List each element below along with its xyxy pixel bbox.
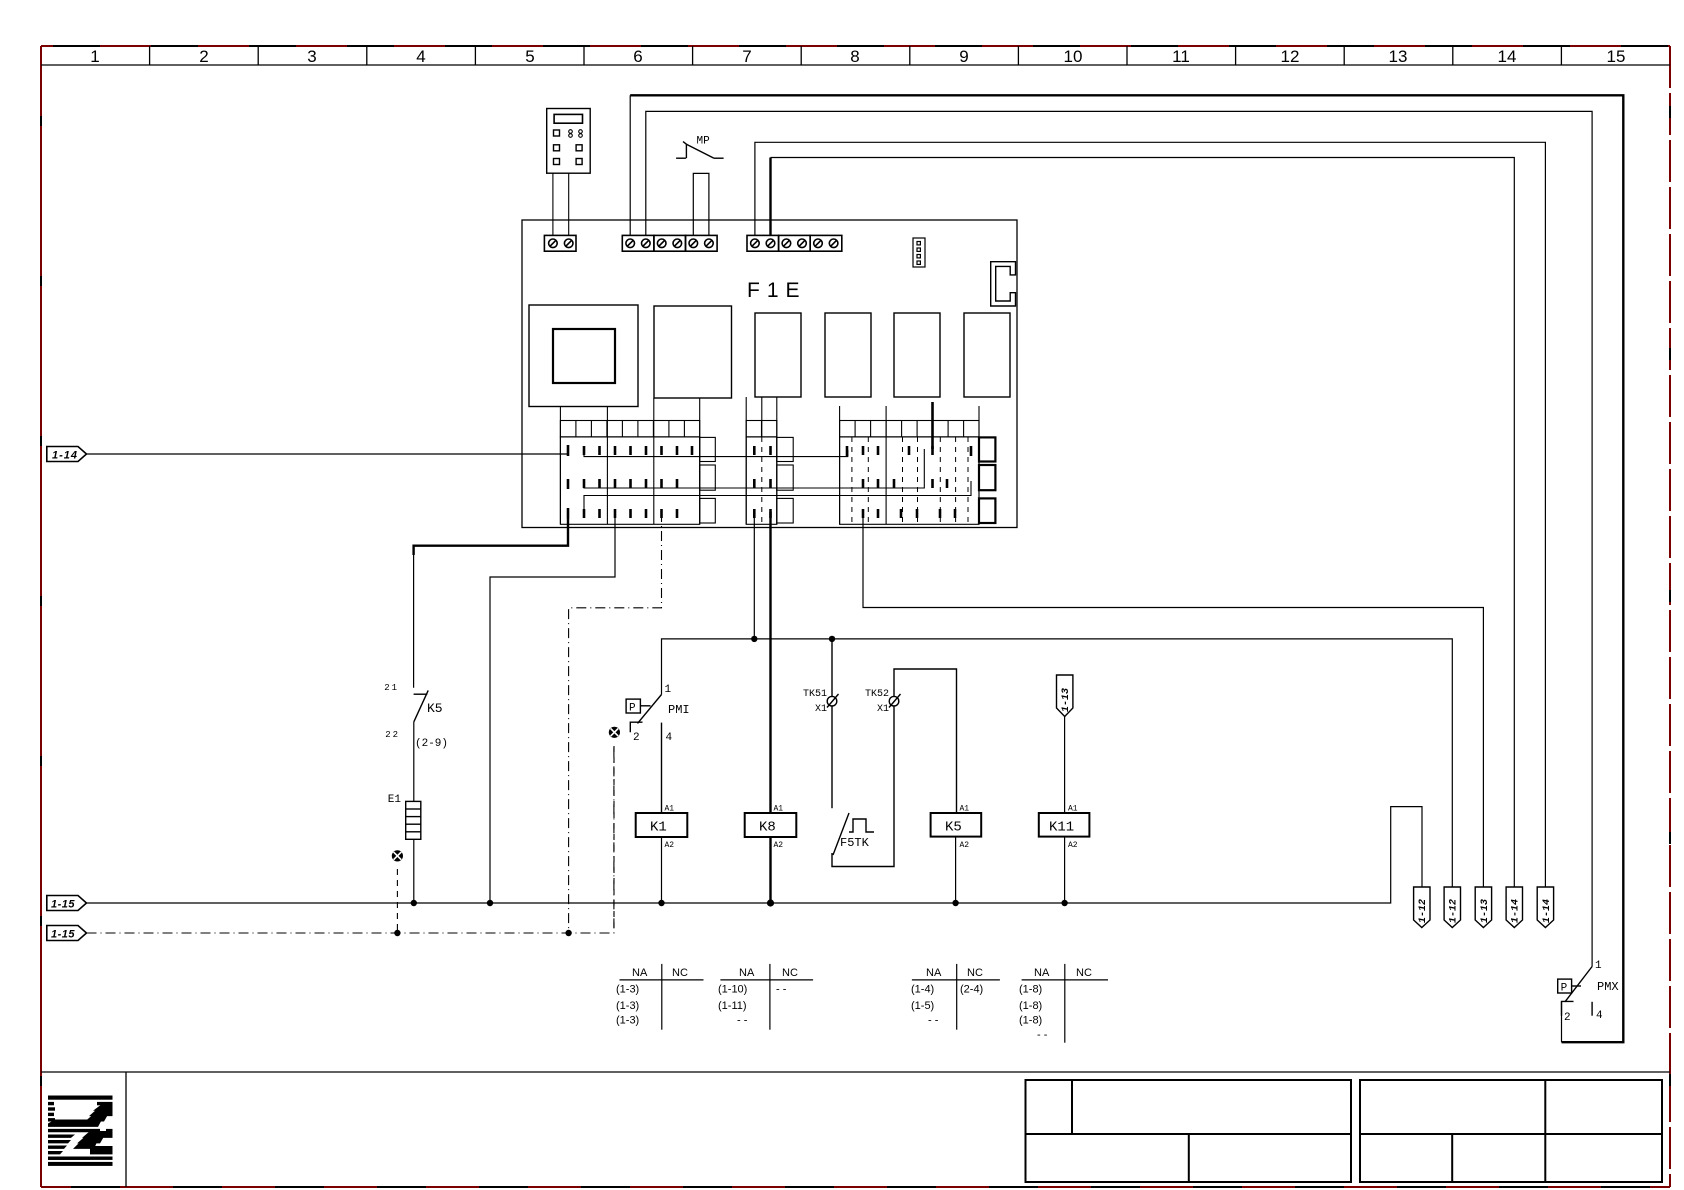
relay block RL1 bbox=[755, 313, 801, 397]
flag label 1-15 (solid rail) bbox=[47, 896, 87, 911]
flag 1-12 first (from rail) bbox=[1414, 887, 1430, 928]
svg-text:K8: K8 bbox=[759, 820, 776, 836]
svg-text:(1-8): (1-8) bbox=[1019, 1015, 1042, 1027]
svg-text:(2-4): (2-4) bbox=[960, 984, 983, 996]
terminal block B1 bbox=[622, 235, 654, 251]
board internal verticals group2 bbox=[746, 397, 777, 524]
contact table K5 bbox=[912, 964, 1000, 1030]
wire K1 to rail bbox=[661, 837, 663, 903]
svg-text:- -: - - bbox=[737, 1015, 748, 1027]
svg-text:2: 2 bbox=[1564, 1012, 1571, 1024]
connector X10 cells row bbox=[560, 421, 699, 437]
title block left table bbox=[1026, 1080, 1352, 1182]
wire flag to K11 bbox=[1064, 717, 1066, 814]
svg-text:NA: NA bbox=[632, 967, 648, 979]
svg-text:A2: A2 bbox=[1068, 841, 1078, 850]
junction dot rail-TK51 bbox=[829, 636, 835, 642]
svg-text:1-13: 1-13 bbox=[1061, 688, 1072, 712]
svg-text:- -: - - bbox=[776, 984, 787, 996]
svg-text:4: 4 bbox=[666, 732, 673, 744]
relay block RL3 bbox=[894, 313, 940, 397]
svg-text:9: 9 bbox=[959, 47, 968, 66]
junction dots on rail bbox=[411, 899, 1068, 906]
wire board to PMI branch bbox=[490, 518, 615, 903]
svg-text:(2-9): (2-9) bbox=[415, 738, 448, 750]
svg-text:4: 4 bbox=[1596, 1010, 1603, 1022]
wire B (net to PMX pin1) bbox=[646, 111, 1592, 966]
svg-text:MP: MP bbox=[697, 136, 711, 148]
svg-text:F5TK: F5TK bbox=[840, 836, 870, 850]
wire K8 to rail (bold) bbox=[769, 837, 771, 903]
flag label 1-14 (left input) bbox=[47, 447, 87, 462]
heater element E1 bbox=[406, 801, 421, 839]
4-pin header J1 bbox=[913, 238, 925, 267]
module block U2 bbox=[654, 306, 732, 398]
svg-text:NC: NC bbox=[1076, 967, 1092, 979]
wire board to flag 1-13 right bbox=[863, 518, 1483, 887]
title block separator line bbox=[41, 1072, 1670, 1187]
svg-text:(1-3): (1-3) bbox=[616, 1000, 639, 1012]
svg-text:12: 12 bbox=[1281, 47, 1300, 66]
svg-text:1: 1 bbox=[1595, 960, 1602, 972]
company logo (striped Z monogram) bbox=[48, 1096, 113, 1166]
IC block U1 (big square with inner square) bbox=[529, 305, 638, 407]
terminal block A (2 screws) bbox=[544, 235, 576, 251]
connector X11 dashed guide bbox=[761, 437, 763, 524]
contact table K11 bbox=[1022, 964, 1108, 1043]
svg-text:(1-8): (1-8) bbox=[1019, 1000, 1042, 1012]
svg-text:A1: A1 bbox=[774, 805, 784, 814]
contact table K1 bbox=[620, 964, 704, 1030]
svg-text:NA: NA bbox=[1034, 967, 1050, 979]
svg-text:NC: NC bbox=[672, 967, 688, 979]
svg-text:10: 10 bbox=[1064, 47, 1083, 66]
svg-text:X1: X1 bbox=[877, 704, 889, 715]
svg-text:2: 2 bbox=[199, 47, 208, 66]
connector X12 cells row bbox=[840, 421, 979, 437]
svg-text:4: 4 bbox=[416, 47, 425, 66]
svg-text:K5: K5 bbox=[427, 701, 443, 716]
board F1E outline bbox=[522, 220, 1017, 528]
flag label 1-15 (dash-dot rail) bbox=[47, 926, 87, 941]
contact table K8 bbox=[720, 964, 813, 1030]
svg-text:- -: - - bbox=[1037, 1029, 1048, 1041]
relay coil K5 bbox=[931, 805, 982, 851]
relay coil K1 bbox=[636, 805, 688, 851]
dashed wire lamp H2 down bbox=[613, 746, 615, 933]
svg-text:TK52: TK52 bbox=[865, 689, 889, 700]
connector X11 cells row bbox=[746, 421, 777, 437]
internal link wire W1 bbox=[584, 450, 848, 457]
display module HMI bbox=[547, 109, 591, 174]
svg-text:11: 11 bbox=[1172, 47, 1190, 66]
relay coil K11 bbox=[1039, 805, 1090, 851]
junction dot rail-X11 bbox=[751, 636, 757, 642]
svg-text:1-15: 1-15 bbox=[51, 929, 75, 941]
svg-text:NA: NA bbox=[739, 967, 755, 979]
svg-text:A2: A2 bbox=[960, 841, 970, 850]
flag 1-14 bbox=[1506, 887, 1522, 928]
board internal bold vertical bbox=[931, 402, 934, 449]
rail 1-15 dash-dot bbox=[87, 747, 614, 933]
svg-text:(1-5): (1-5) bbox=[911, 1000, 934, 1012]
wire MP bridge to terminals bbox=[693, 173, 709, 235]
indicator lamp H2 bbox=[609, 727, 620, 738]
terminal block B2 bbox=[654, 235, 686, 251]
connector X12 pin ticks bbox=[847, 446, 971, 518]
terminal block C3 bbox=[810, 235, 842, 251]
svg-text:F1E: F1E bbox=[747, 279, 807, 302]
svg-text:E1: E1 bbox=[388, 794, 402, 806]
svg-text:1-14: 1-14 bbox=[1511, 899, 1522, 923]
svg-text:5: 5 bbox=[525, 47, 534, 66]
wire display to board bbox=[553, 173, 569, 235]
wire K5 to rail bbox=[955, 837, 957, 903]
internal link wire W2 bbox=[584, 449, 924, 488]
svg-text:PMX: PMX bbox=[1597, 980, 1619, 994]
indicator lamp H1 bbox=[392, 850, 403, 861]
connector X11 pin ticks bbox=[754, 446, 770, 518]
svg-text:NA: NA bbox=[926, 967, 942, 979]
svg-text:2: 2 bbox=[633, 732, 640, 744]
wire K11 to rail bbox=[1064, 837, 1066, 903]
wire K8 feed (bold) bbox=[769, 512, 771, 813]
svg-text:1: 1 bbox=[90, 47, 99, 66]
svg-text:15: 15 bbox=[1607, 47, 1626, 66]
flag 1-14 last bbox=[1537, 887, 1553, 928]
svg-text:(1-3): (1-3) bbox=[616, 984, 639, 996]
column ruler band bbox=[41, 46, 1670, 65]
title block right table bbox=[1360, 1080, 1662, 1182]
svg-text:(1-10): (1-10) bbox=[718, 984, 747, 996]
connector X10 body bbox=[560, 437, 715, 524]
internal link wire W3 bbox=[584, 481, 971, 514]
svg-text:(1-4): (1-4) bbox=[911, 984, 934, 996]
svg-text:14: 14 bbox=[1498, 47, 1517, 66]
flag 1-12 second bbox=[1444, 887, 1460, 928]
svg-text:PMI: PMI bbox=[668, 703, 690, 717]
switch MP bbox=[676, 142, 724, 159]
svg-text:13: 13 bbox=[1389, 47, 1408, 66]
svg-text:(1-11): (1-11) bbox=[718, 1000, 747, 1012]
ruler numbers 1-15 bbox=[90, 47, 1625, 66]
connector X11 body bbox=[746, 437, 793, 524]
pushbutton PMX bbox=[1558, 967, 1592, 1016]
svg-text:8: 8 bbox=[850, 47, 859, 66]
svg-text:K1: K1 bbox=[650, 820, 667, 836]
svg-text:TK51: TK51 bbox=[803, 689, 827, 700]
svg-text:A1: A1 bbox=[1068, 805, 1078, 814]
svg-text:1: 1 bbox=[665, 684, 672, 696]
svg-text:1-12: 1-12 bbox=[1418, 899, 1429, 923]
temp sensor TK52 bbox=[889, 669, 957, 813]
flag 1-13 feeding K11 bbox=[1057, 675, 1073, 717]
terminal block C1 bbox=[747, 235, 779, 251]
svg-text:1-13: 1-13 bbox=[1480, 899, 1491, 923]
svg-text:22: 22 bbox=[385, 730, 400, 740]
wire E1 to rail bbox=[413, 839, 415, 903]
svg-text:K5: K5 bbox=[945, 820, 962, 836]
svg-text:(1-3): (1-3) bbox=[616, 1015, 639, 1027]
svg-text:- -: - - bbox=[928, 1015, 939, 1027]
svg-text:21: 21 bbox=[384, 683, 399, 693]
wire A (net to PMX pin2, bold) bbox=[630, 95, 1623, 1042]
svg-text:P: P bbox=[1561, 983, 1568, 995]
wire D (net to flag 1-14 left, bold riser) bbox=[771, 158, 1515, 888]
board internal verticals group1 bbox=[560, 398, 699, 524]
svg-text:6: 6 bbox=[633, 47, 642, 66]
svg-text:A1: A1 bbox=[665, 805, 675, 814]
wire X11 pin to coil rail bbox=[753, 518, 755, 639]
svg-text:A1: A1 bbox=[960, 805, 970, 814]
flag 1-13 bbox=[1475, 887, 1491, 928]
relay block RL4 bbox=[964, 313, 1010, 397]
pushbutton PMI bbox=[626, 695, 661, 814]
svg-text:A2: A2 bbox=[665, 841, 675, 850]
wire board to K5 contact (bold) bbox=[414, 519, 568, 688]
thermal contact F5TK bbox=[832, 706, 894, 867]
svg-text:X1: X1 bbox=[815, 704, 827, 715]
board internal verticals group3 bbox=[840, 406, 979, 524]
svg-text:K11: K11 bbox=[1049, 820, 1074, 836]
connector X12 dashed guides bbox=[852, 437, 968, 524]
svg-text:NC: NC bbox=[967, 967, 983, 979]
svg-text:P: P bbox=[629, 703, 636, 715]
connector X12 side tabs (bold) bbox=[979, 437, 995, 523]
mounting bracket (C profile) bbox=[991, 262, 1016, 306]
relay coil K8 bbox=[745, 805, 797, 851]
svg-text:1-12: 1-12 bbox=[1449, 899, 1460, 923]
svg-text:NC: NC bbox=[782, 967, 798, 979]
relay block RL2 bbox=[825, 313, 871, 397]
svg-text:7: 7 bbox=[742, 47, 751, 66]
wire from flag 1-14 into board pin bbox=[87, 445, 569, 454]
svg-text:(1-8): (1-8) bbox=[1019, 984, 1042, 996]
svg-text:1-14: 1-14 bbox=[1542, 899, 1553, 923]
terminal block C2 bbox=[779, 235, 811, 251]
dashed wire lamp H1 to dashdot rail bbox=[396, 869, 398, 933]
coil feed rail bbox=[662, 639, 1453, 887]
control dash-dot run from board bbox=[569, 512, 662, 933]
terminal block B3 bbox=[686, 235, 718, 251]
contact K5 (NC with terminals 21/22) bbox=[414, 690, 429, 722]
connector X12 body bbox=[840, 437, 979, 524]
rail 1-15 solid bbox=[87, 807, 1423, 903]
wire K5 contact to E1 bbox=[413, 722, 415, 802]
wire C (net to flag 1-14 right) bbox=[755, 142, 1546, 887]
connector X10 pin ticks bbox=[568, 445, 692, 519]
junction dots on dash-dot rail bbox=[394, 930, 572, 936]
temp sensor TK51 bbox=[827, 639, 839, 808]
svg-text:A2: A2 bbox=[774, 841, 784, 850]
display module LEDs bbox=[569, 130, 583, 138]
svg-text:1-14: 1-14 bbox=[52, 450, 78, 462]
svg-text:1-15: 1-15 bbox=[51, 899, 75, 911]
svg-text:3: 3 bbox=[307, 47, 316, 66]
